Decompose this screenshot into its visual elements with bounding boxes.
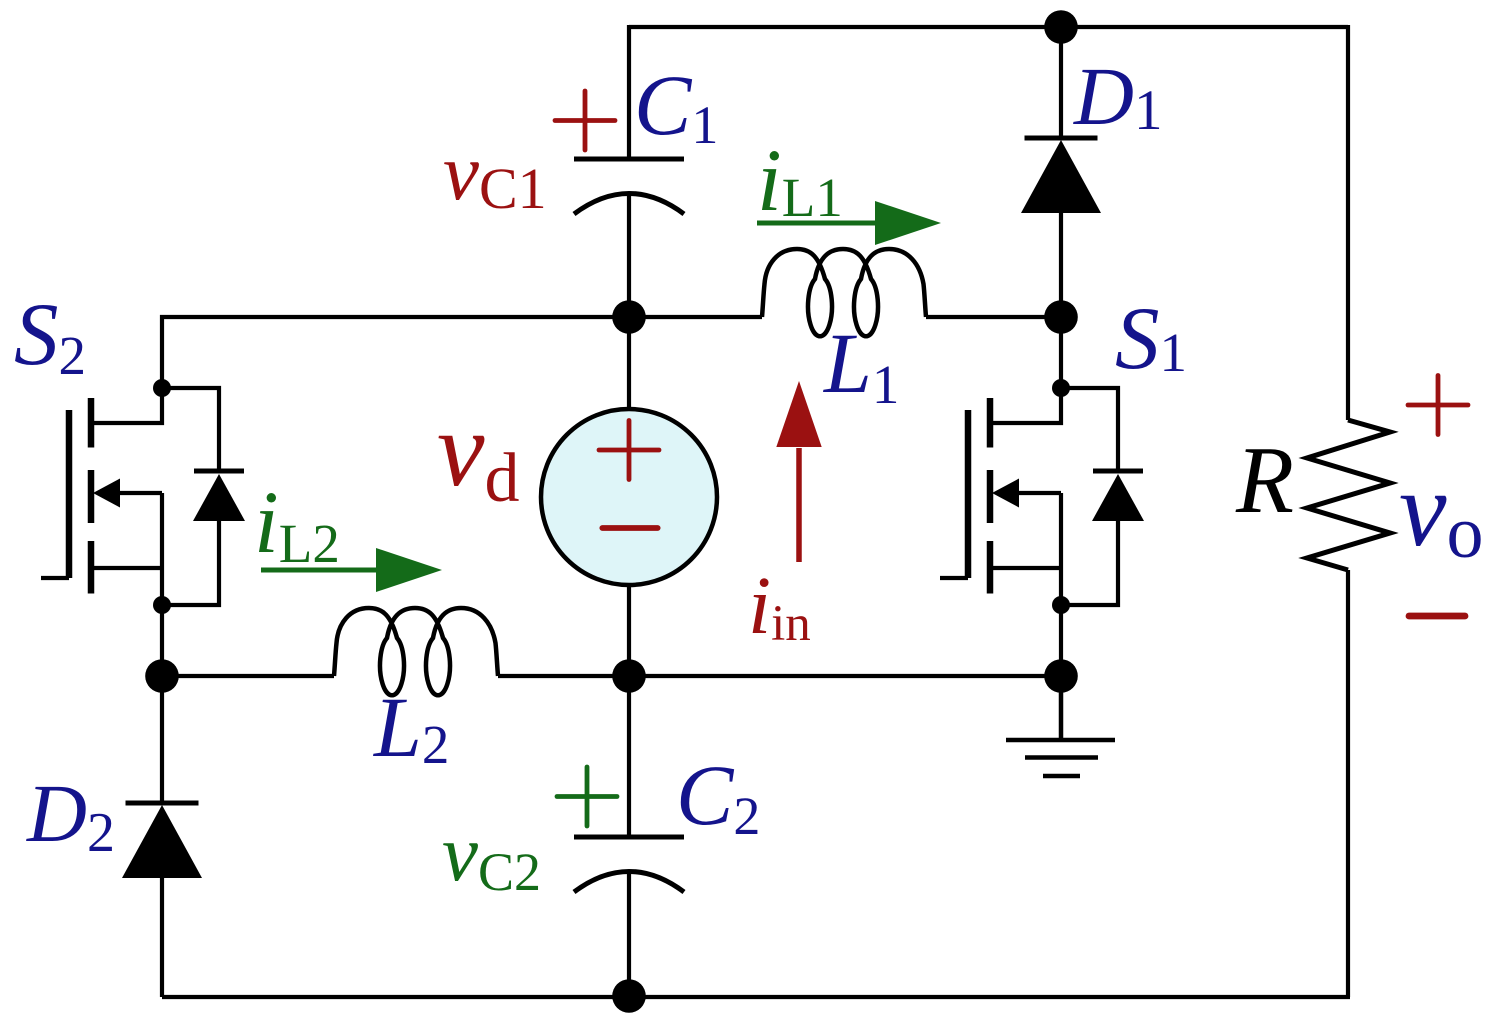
- wire: S1 source down to node E: [1059, 605, 1063, 676]
- wire: C1 bottom lead to node A: [627, 194, 631, 317]
- voltage source vd circle: [541, 409, 717, 585]
- transistor S1 body-diode branch wire: [1061, 388, 1118, 605]
- label vo plus sign: [1408, 376, 1468, 435]
- ground symbol: [1006, 676, 1115, 776]
- transistor S2 body-diode branch wire: [162, 388, 219, 605]
- diode D1 top lead: [1059, 27, 1063, 138]
- diode D1: [1021, 138, 1101, 213]
- bottom node junction dot: [612, 979, 646, 1013]
- transistor S2 channel segments: [88, 398, 95, 594]
- node C junction dot: [145, 659, 179, 693]
- transistor S1 drain connection dot: [1052, 379, 1070, 397]
- current arrow i_in: [776, 381, 821, 562]
- transistor S2 bulk arrow: [93, 479, 162, 508]
- node B junction dot: [1044, 300, 1078, 334]
- transistor S2 drain connection dot: [153, 379, 171, 397]
- label vo minus sign: [1409, 613, 1465, 620]
- voltage source vd bottom lead: [627, 585, 631, 676]
- resistor R zigzag: [1307, 420, 1390, 570]
- wire: node D to node E: [629, 674, 1061, 678]
- svg-text:R: R: [1235, 427, 1294, 533]
- transistor S1 source connection dot: [1052, 596, 1070, 614]
- transistor S2 source lead: [91, 493, 162, 605]
- wire: node C to inductor L2: [162, 674, 334, 678]
- current arrow iL1: [757, 201, 941, 245]
- transistor S1 body diode: [1092, 471, 1144, 521]
- wire: right rail lower: [1346, 570, 1350, 997]
- wire: inductor L1 to node B: [926, 315, 1061, 319]
- voltage source plus mark: [599, 421, 659, 480]
- capacitor C1 plates: [574, 159, 684, 214]
- inductor L1: [762, 249, 926, 336]
- voltage source vd top lead: [627, 317, 631, 410]
- voltage source minus mark: [602, 525, 657, 531]
- wire: middle-left rail from S2 drain to node A: [162, 317, 629, 388]
- transistor S1 bulk arrow: [992, 479, 1061, 508]
- transistor S2 drain lead: [91, 388, 162, 423]
- node E (ground) junction dot: [1044, 659, 1078, 693]
- wire: inductor L2 to node D: [498, 674, 629, 678]
- inductor L2: [334, 608, 498, 695]
- wire: bottom rail: [162, 995, 1350, 999]
- wire: S2 source down to node C: [160, 605, 164, 676]
- capacitor C2 top lead: [627, 676, 631, 837]
- transistor S1 channel segments: [987, 398, 994, 594]
- wire: C1 top lead: [627, 25, 631, 159]
- wire: node A to inductor L1: [629, 315, 762, 319]
- diode D2: [122, 803, 202, 878]
- wire: top rail: [629, 25, 1348, 29]
- top node junction dot: [1044, 10, 1078, 44]
- diode D2 bottom lead: [160, 878, 164, 997]
- transistor S1 gate bar and gate stub: [940, 410, 968, 578]
- transistor S2 body diode: [193, 471, 245, 521]
- transistor S1 source lead: [990, 493, 1061, 605]
- label vC2 plus sign: [557, 767, 617, 826]
- diode D1 bottom lead to node B: [1059, 213, 1063, 317]
- transistor S1 drain lead: [990, 388, 1061, 423]
- transistor S2 gate bar and gate stub: [41, 410, 69, 578]
- current arrow iL2: [261, 548, 442, 592]
- diode D2 top lead from node C: [160, 676, 164, 803]
- wire: right rail upper: [1346, 25, 1350, 420]
- label vC1 plus sign: [555, 91, 615, 150]
- wire: node B down to S1 drain: [1059, 317, 1063, 388]
- capacitor C2 plates: [574, 837, 684, 892]
- node A junction dot: [612, 300, 646, 334]
- transistor S2 source connection dot: [153, 596, 171, 614]
- capacitor C2 bottom lead: [627, 872, 631, 997]
- node D junction dot: [612, 659, 646, 693]
